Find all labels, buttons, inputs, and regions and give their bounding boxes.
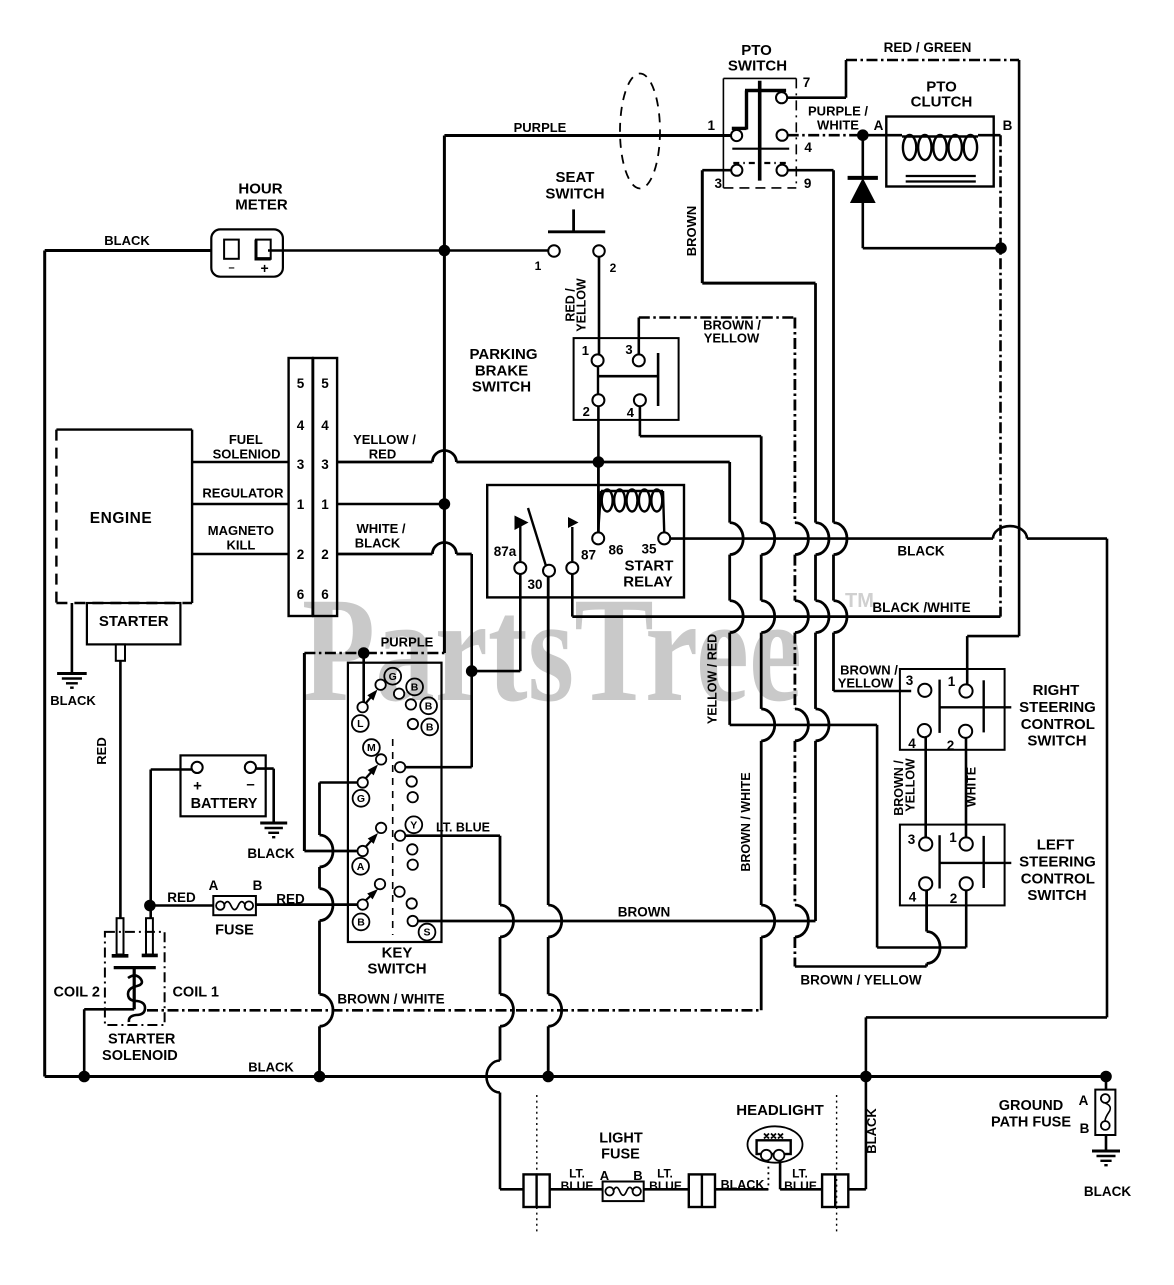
PTO switch contact 1 [731,130,742,141]
key switch pole A arrow [366,840,372,847]
dotted guide first lamp connector [536,1095,538,1235]
wire brown/white vertical x=761.2 [760,436,763,522]
start relay coil [601,490,663,492]
wire lt blue from key Y contact [406,834,500,837]
svg-text:3: 3 [321,457,329,472]
svg-text:SWITCH: SWITCH [1027,887,1086,904]
headlight black stub dotted [767,1161,769,1189]
parking brake switch S2 [574,338,679,420]
start relay 87 stub and arrow [571,527,573,561]
key switch pole M contact [358,777,368,787]
wire lamp connector 3 to black return [848,1188,866,1191]
svg-text:RELAY: RELAY [623,574,672,591]
ground symbol battery [260,822,287,825]
junction purple / regulator line [439,498,451,510]
svg-text:RED / GREEN: RED / GREEN [884,40,972,55]
start relay contact 87 [566,562,578,574]
svg-text:6: 6 [321,587,329,602]
svg-text:4: 4 [908,736,916,751]
svg-text:RED: RED [167,890,196,905]
svg-text:KEY: KEY [382,945,413,962]
svg-text:BLACK: BLACK [50,693,96,708]
svg-text:G: G [389,671,397,683]
wire lamp connector1 to light fuse [550,1188,603,1191]
svg-text:BLACK: BLACK [104,233,150,248]
wire brown vertical x=702.3 [701,170,704,283]
lamp connector 1 [524,1174,550,1207]
wire brown row y=921 from key S contact [418,920,816,923]
wire white/black vertical x=471.7 [470,554,473,767]
svg-text:BROWN: BROWN [618,905,671,920]
battery terminal - [245,762,256,773]
svg-text:MAGNETO: MAGNETO [208,523,274,538]
svg-text:SOLENIOD: SOLENIOD [213,447,281,462]
wire headlight to lamp connector 3 [780,1188,822,1191]
svg-text:BLUE: BLUE [784,1179,817,1193]
wire purple/white junction to clutch A [863,134,902,137]
svg-text:–: – [228,262,234,274]
wire red fuse to key B contact [256,903,358,906]
svg-text:B: B [411,682,419,694]
svg-text:4: 4 [297,418,305,433]
seat switch contact 1 [548,245,560,257]
wire yellow/red jog y=947.5 [877,946,966,949]
svg-text:ENGINE: ENGINE [90,510,152,527]
svg-text:SWITCH: SWITCH [728,58,787,75]
svg-text:B: B [253,878,263,893]
wire brown/yellow right pin4 to left pin3 [924,737,927,837]
PTO switch top bar [745,89,786,93]
svg-text:5: 5 [297,376,305,391]
wire yellow/red vertical x=729.7 [728,462,731,523]
key switch pole L target [375,680,385,690]
dashed ellipse connector loop [620,74,660,189]
svg-text:BLACK: BLACK [355,536,401,551]
svg-text:YELLOW: YELLOW [838,676,894,691]
svg-text:A: A [357,861,365,873]
wire pin9 vertical x=833.5 [832,170,835,522]
wire key G contact jog [320,781,358,784]
svg-text:BLACK /WHITE: BLACK /WHITE [872,600,970,615]
svg-text:LT. BLUE: LT. BLUE [436,821,490,835]
key switch Y contact (lt blue) [395,831,405,841]
svg-text:WHITE: WHITE [817,118,859,133]
svg-text:START: START [625,558,674,575]
parking brake contact 1 [592,354,604,366]
wire bottom black bus [45,1075,1106,1078]
ground symbol ground path fuse [1092,1150,1120,1153]
key switch pole L arrow [366,697,371,703]
svg-text:YELLOW: YELLOW [575,278,589,332]
wire black vertical x=1107 [1106,539,1109,1018]
wire parking brake pin3 stub up [637,318,640,355]
svg-text:CONTROL: CONTROL [1021,871,1095,888]
key switch letter B3 [421,719,438,736]
svg-text:1: 1 [948,674,956,689]
engine block [56,428,192,430]
key switch letter Y [405,816,422,833]
battery BT1 [181,755,266,816]
svg-text:A: A [209,878,219,893]
wire clutch B dash-dot vertical x=1000.5 [999,135,1002,616]
svg-text:4: 4 [909,890,917,905]
PTO switch common jog from pin 1 [732,127,747,130]
wire regulator line [192,503,289,506]
wire purple dash-dot row y=653 [304,652,444,655]
solenoid coil spiral [128,976,145,1023]
key switch pole B contact [358,899,368,909]
svg-text:1: 1 [708,118,716,133]
wire lamp connector2 to headlight [715,1188,768,1191]
wire coil2 to bus [84,1008,134,1011]
svg-text:S: S [423,927,430,939]
svg-text:KILL: KILL [226,538,255,553]
wire yellow/red up to left steering pin 2 [965,891,968,948]
svg-text:LEFT: LEFT [1037,837,1075,854]
wire pin9 to right steering pin 3 [834,690,912,693]
svg-text:RED: RED [369,447,396,462]
svg-text:3: 3 [297,457,305,472]
parking brake contact 2 [592,394,604,406]
svg-text:BROWN / WHITE: BROWN / WHITE [739,772,753,871]
wire white right pin2 to left pin1 [965,738,968,837]
lamp connector 2 [689,1174,715,1207]
key switch pole A target [376,823,386,833]
PTO switch contact 9 [777,165,788,176]
svg-text:FUSE: FUSE [215,923,254,939]
wire purple vertical node [443,136,446,654]
wire black/white row y=616.6 [572,615,1000,618]
svg-text:REGULATOR: REGULATOR [202,486,284,501]
wire purple/white PTO pin4 to junction [788,134,863,137]
svg-text:LIGHT: LIGHT [599,1131,643,1147]
svg-text:2: 2 [321,547,329,562]
PTO switch contact 3 [731,165,742,176]
wire yellow/red lower run y=724.9 [730,724,877,727]
svg-text:5: 5 [321,376,329,391]
wire fuel solenoid line [192,461,289,464]
wire parking brake pin2 down to yellow/red row and relay 86 [597,406,600,532]
wire purple down x=304.4 [303,653,306,851]
svg-text:4: 4 [627,405,635,420]
solenoid left post [117,918,124,954]
svg-text:FUSE: FUSE [601,1147,640,1163]
svg-text:FUEL: FUEL [229,432,263,447]
junction hour meter wire / purple vertical [439,245,451,257]
svg-text:STARTER: STARTER [99,613,169,630]
wire brown/yellow dash-dot horizontal y=317.5 [639,316,795,319]
key switch pole B arrow [366,896,371,901]
svg-text:STEERING: STEERING [1019,699,1096,716]
wire key G wire down x=319.5 [318,783,321,836]
svg-text:1: 1 [949,830,957,845]
svg-text:COIL 1: COIL 1 [172,985,218,1001]
svg-text:B: B [426,722,434,734]
svg-text:2: 2 [583,404,590,419]
wire yellow/red down x=877.1 [876,725,879,948]
svg-text:2: 2 [297,547,305,562]
svg-text:WHITE: WHITE [965,767,979,807]
key switch letter A [352,858,369,875]
wire purple to key switch A contact [304,850,357,853]
key switch letter S [419,924,436,941]
svg-text:B: B [1003,118,1013,133]
svg-text:YELLOW / RED: YELLOW / RED [706,634,720,724]
svg-text:SWITCH: SWITCH [472,379,531,396]
wire brown/yellow bottom run y=966.5 [795,965,927,968]
key switch right contact row1 (white/black) [395,762,405,772]
wire key switch L stub [362,653,365,702]
wire relay 30 down to bus [547,577,550,905]
svg-text:BATTERY: BATTERY [191,796,258,812]
parking brake actuator bars [597,366,599,394]
svg-text:PATH FUSE: PATH FUSE [991,1115,1071,1131]
svg-text:CLUTCH: CLUTCH [911,94,973,111]
key switch letter B bottom [353,914,370,931]
solenoid right post [146,918,153,954]
svg-text:87a: 87a [494,544,517,559]
ground path fuse F3 [1105,1077,1108,1090]
svg-text:YELLOW: YELLOW [904,758,918,812]
svg-text:B: B [633,1168,642,1183]
PTO clutch L1 [886,117,993,187]
dotted guide third lamp connector [836,1095,838,1235]
junction bottom bus / solenoid ground [78,1071,90,1083]
svg-text:PartsTree: PartsTree [302,567,802,733]
key switch letter B1 [406,679,423,696]
svg-text:3: 3 [906,673,914,688]
svg-text:30: 30 [527,577,542,592]
PTO switch actuator bar vertical [758,81,762,181]
fuse F1 [213,896,256,915]
svg-text:B: B [357,917,365,929]
wire lt blue to first lamp connector [500,1188,524,1191]
svg-text:GROUND: GROUND [999,1098,1063,1114]
wire clutch B corner [978,134,1001,137]
wire battery positive to fuse junction [151,768,192,771]
svg-text:BLACK: BLACK [897,544,944,559]
svg-text:1: 1 [321,497,329,512]
key switch S contact (brown) [408,916,418,926]
svg-text:86: 86 [608,543,624,558]
svg-text:SWITCH: SWITCH [545,186,604,203]
key switch pole M arrow [366,772,372,779]
junction bottom bus / ground path fuse [1100,1071,1112,1083]
light fuse F2 [603,1182,644,1202]
junction bottom bus / headlight return [860,1071,872,1083]
wire red/green vertical x=1019.1 [1018,60,1021,636]
PTO switch contact 7 [776,92,787,103]
junction battery/fuse/solenoid [144,900,156,912]
PTO switch lower dash bar [733,162,789,164]
svg-text:PURPLE: PURPLE [381,635,434,650]
wire PTO pin9 right [788,169,834,172]
svg-text:TM: TM [845,590,874,612]
junction bottom bus / start relay 30 wire [542,1071,554,1083]
key switch letter M [363,739,380,756]
wire black down to bus x=865.9 [865,1017,868,1189]
junction purple / key switch L stub [358,647,370,659]
connector block left column [289,358,313,616]
junction white-black / relay 87a wire [466,665,478,677]
key switch pole M target [376,754,386,764]
svg-text:BRAKE: BRAKE [475,363,528,380]
left steering control switch S6 [900,825,1005,906]
PTO switch S3 [723,77,796,79]
solenoid plunger bar [114,966,156,969]
svg-text:G: G [357,793,365,805]
headlight LP1 [748,1126,803,1162]
junction bottom bus / key switch G wire [314,1071,326,1083]
svg-text:BLACK: BLACK [864,1108,879,1154]
parking brake contact 4 [634,394,646,406]
wire 87a jog to white/black vertical [472,670,521,673]
svg-text:BLUE: BLUE [649,1179,682,1193]
wire white/black row from connector [337,553,432,556]
wire black hour meter to seat switch [268,249,549,252]
wire lt blue vertical x=500 [499,836,502,905]
svg-text:BROWN / YELLOW: BROWN / YELLOW [800,973,922,988]
wire engine ground [71,603,74,674]
wire relay 87 down [571,574,574,617]
starter block [87,603,180,644]
svg-text:PARKING: PARKING [469,346,537,363]
svg-text:BLACK: BLACK [248,1060,294,1075]
key switch pole A contact [358,846,368,856]
wire purple horizontal to PTO switch pin 1 [444,134,731,137]
svg-text:2: 2 [947,738,955,753]
start relay contact 30 [543,565,555,577]
wire white/black into key switch M contact [406,766,472,769]
wire black wide hop over clutch-B and red/green verticals [993,526,1027,539]
junction diode wire / clutch B dash-dot [995,242,1007,254]
svg-text:1: 1 [582,343,589,358]
seat switch contact 2 [593,245,605,257]
wire brown/white dash-dot row y=1010.3 [147,1009,761,1012]
key switch bottom right contacts [394,887,404,897]
svg-text:A: A [600,1168,610,1183]
seat switch S1 [548,230,605,233]
lamp connector 3 [822,1174,848,1207]
svg-text:RIGHT: RIGHT [1033,682,1080,699]
svg-text:SWITCH: SWITCH [367,961,426,978]
svg-text:2: 2 [950,891,958,906]
svg-text:BLACK: BLACK [1084,1184,1131,1199]
wire battery negative to ground [256,767,274,770]
svg-text:4: 4 [321,418,329,433]
starter solenoid K2 [105,932,165,1025]
svg-text:+: + [193,778,202,795]
svg-text:3: 3 [715,176,723,191]
svg-text:METER: METER [235,197,288,214]
svg-text:SEAT: SEAT [556,169,595,186]
svg-text:1: 1 [535,259,542,273]
svg-text:7: 7 [803,75,811,90]
PTO clutch coil [902,135,978,137]
headlight lt-blue stub [779,1161,782,1189]
svg-text:YELLOW /: YELLOW / [353,432,416,447]
wire parking brake pin4 right y=436.2 [640,435,761,438]
svg-text:Y: Y [410,819,417,831]
key switch pole L contact [357,702,367,712]
wire red fuse feed [151,904,214,907]
svg-text:SWITCH: SWITCH [1027,733,1086,750]
svg-text:STEERING: STEERING [1019,854,1096,871]
PTO clutch core lines [906,175,976,177]
wire brown horizontal y=283.1 [702,282,815,285]
junction yellow-red row / parking brake pin2 / relay 86 [593,456,605,468]
starter terminal stub [116,644,125,660]
svg-text:BLACK: BLACK [247,846,294,861]
svg-text:B: B [425,700,433,712]
svg-text:A: A [1079,1093,1089,1108]
svg-text:3: 3 [625,342,632,357]
key switch letter G lower [353,790,370,807]
start relay contact 87a [514,562,526,574]
svg-text:BROWN: BROWN [684,206,699,257]
right steering control switch S5 [900,669,1005,750]
ground symbol engine [57,672,87,675]
key switch S4 [348,663,442,942]
wire light fuse to lamp connector 2 [644,1188,689,1191]
PTO switch mid bar [732,148,789,150]
svg-text:BLACK: BLACK [721,1178,765,1192]
wire brown/yellow dash-dot vertical x=794.9 [794,318,797,523]
svg-text:CONTROL: CONTROL [1021,716,1095,733]
parking brake contact 3 [633,354,645,366]
wire black hour meter left [45,249,212,252]
key switch pole B target [375,879,385,889]
svg-text:2: 2 [610,261,617,275]
start relay contact 35 [658,532,670,544]
wire red/green to right steering pin1 [967,635,1019,638]
connector block right column [313,358,337,616]
wire yellow/red row from connector [337,461,432,464]
start relay 87a stub and arrow [519,524,521,561]
wire black left margin vertical [43,251,46,1077]
svg-text:BROWN / WHITE: BROWN / WHITE [337,992,444,1007]
svg-text:YELLOW: YELLOW [704,331,760,346]
wire red/yellow seat to parking brake [598,257,601,355]
svg-text:PURPLE: PURPLE [514,120,567,135]
svg-text:BLUE: BLUE [561,1179,594,1193]
svg-text:1: 1 [297,497,305,512]
wire PTO pin7 to red/green corner [787,96,846,99]
start relay armature [528,508,546,566]
diode D1 [861,135,864,176]
svg-text:B: B [1080,1121,1090,1136]
hour meter HM1 [211,229,283,276]
wire diode to clutch B net [863,247,1001,250]
wire black relay 35 row [670,537,993,540]
key switch dashed divider [392,739,394,935]
svg-text:9: 9 [804,176,812,191]
svg-text:35: 35 [641,542,657,557]
svg-text:4: 4 [804,140,812,155]
svg-text:COIL 2: COIL 2 [53,985,99,1001]
wire red/green dash-dot top [846,59,1019,62]
svg-text:WHITE /: WHITE / [356,521,405,536]
battery terminal + [192,762,203,773]
key switch letter G top [384,668,401,685]
wire red starter to solenoid post [119,661,122,918]
svg-text:PTO: PTO [741,42,772,59]
solenoid plunger stem [133,968,136,1010]
svg-text:3: 3 [908,832,916,847]
svg-text:HEADLIGHT: HEADLIGHT [736,1102,824,1119]
wire relay 87a down [519,574,522,671]
wire left steering pin4 stub [925,891,928,932]
